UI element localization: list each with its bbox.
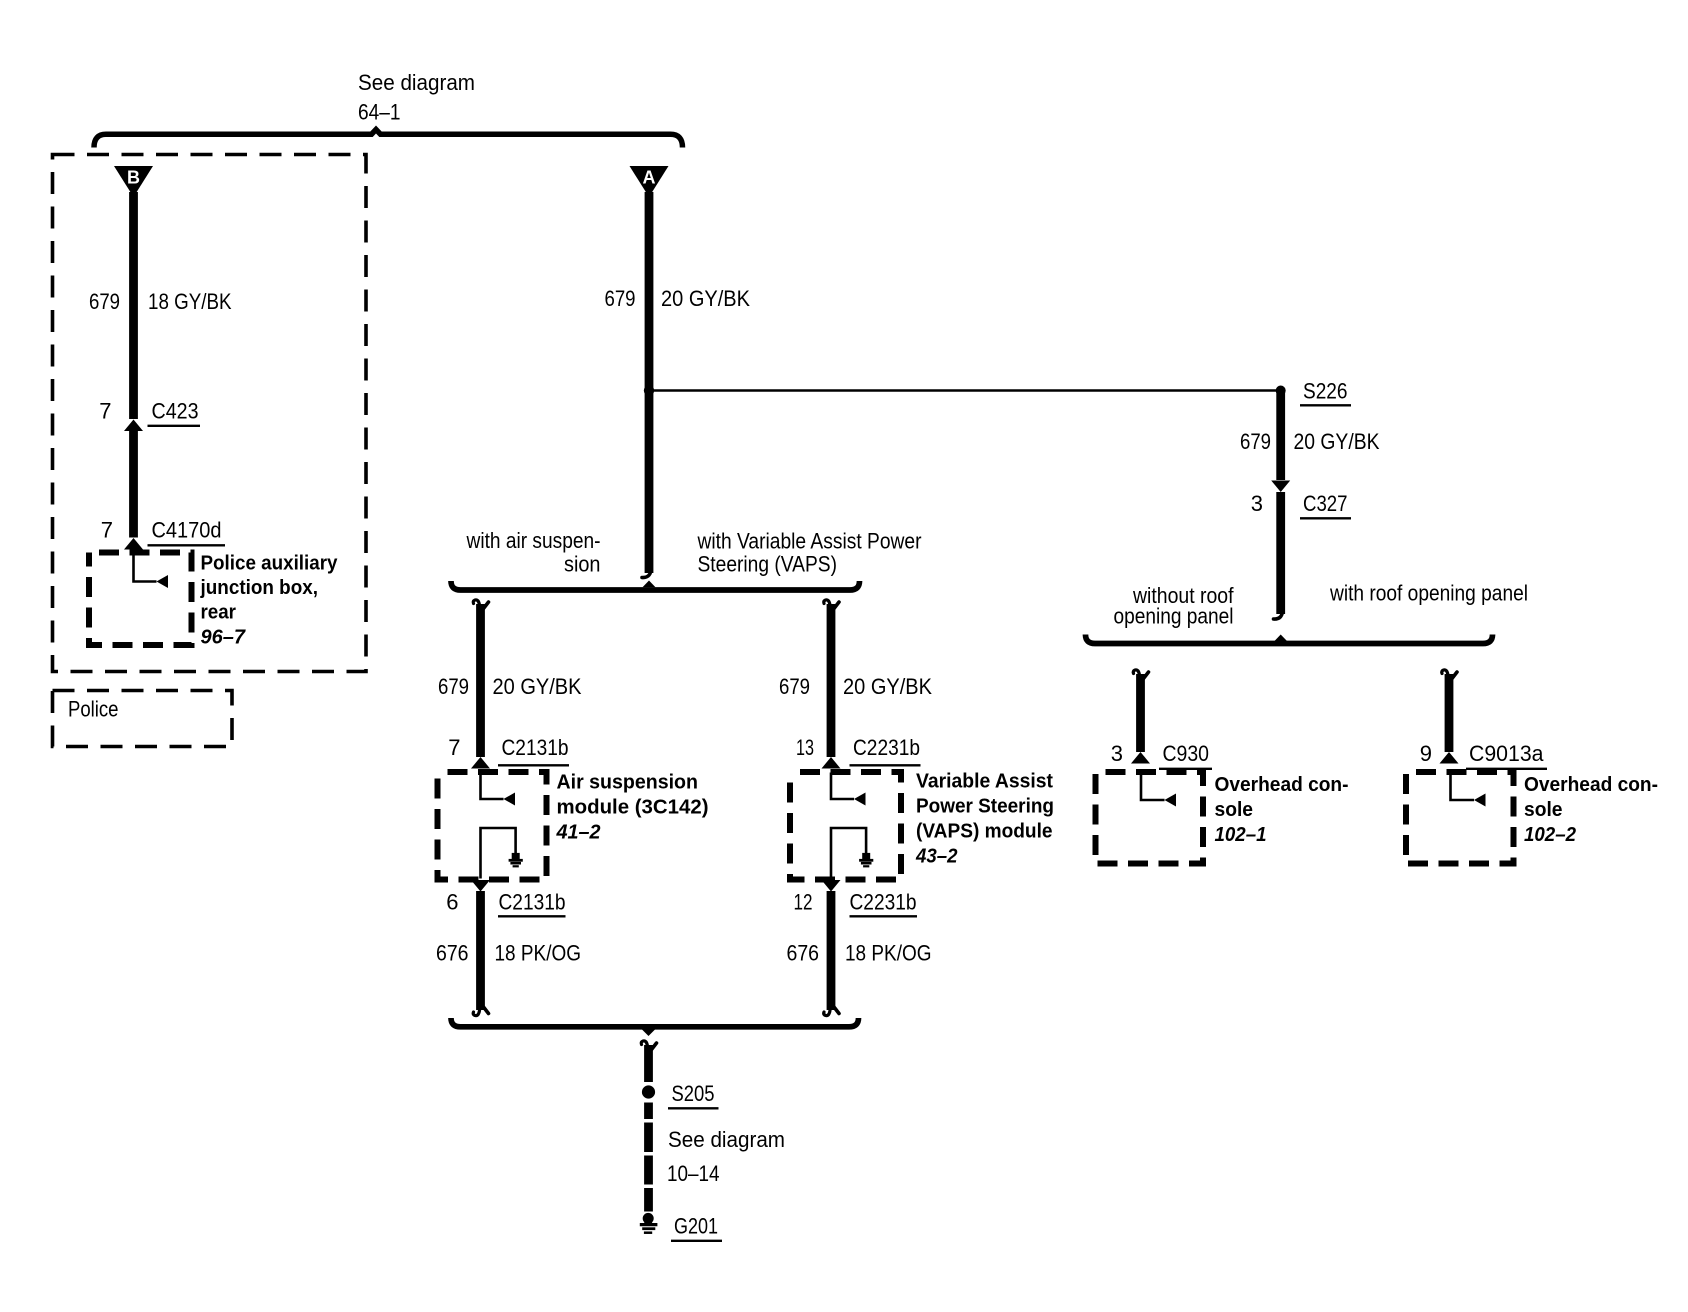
svg-text:C4170d: C4170d bbox=[152, 518, 222, 543]
VAPS module internal ground circuit bbox=[831, 828, 866, 879]
svg-text:See diagram: See diagram bbox=[358, 70, 475, 95]
wire 679 20 GY/BK (from A) bbox=[645, 192, 654, 573]
wire 679 20 GY/BK (S226 to C327) bbox=[1276, 391, 1285, 481]
svg-text:Air suspension: Air suspension bbox=[557, 771, 699, 794]
svg-text:sole: sole bbox=[1215, 798, 1254, 821]
svg-text:679: 679 bbox=[438, 674, 469, 699]
svg-text:module (3C142): module (3C142) bbox=[557, 796, 709, 819]
VAPS branch wire 679 20 GY/BK bbox=[824, 600, 830, 605]
svg-text:with roof opening panel: with roof opening panel bbox=[1329, 581, 1528, 606]
svg-text:3: 3 bbox=[1251, 491, 1263, 516]
off-page connector B bbox=[114, 166, 153, 197]
VAPS module box (dashed) bbox=[790, 772, 901, 880]
wire 676 18 PK/OG (VAPS module) bbox=[827, 891, 836, 1010]
svg-text:679: 679 bbox=[779, 674, 810, 699]
svg-text:sole: sole bbox=[1524, 798, 1563, 821]
svg-text:See diagram: See diagram bbox=[668, 1127, 785, 1152]
svg-text:with Variable Assist Power: with Variable Assist Power bbox=[697, 529, 922, 554]
console internal circuit (left) bbox=[1141, 773, 1165, 801]
svg-text:41–2: 41–2 bbox=[556, 821, 602, 844]
wire to splice S205 bbox=[641, 1041, 647, 1046]
Police option dashed harness box bbox=[53, 155, 367, 672]
svg-text:Police: Police bbox=[68, 697, 119, 722]
svg-text:C930: C930 bbox=[1163, 741, 1210, 766]
svg-text:12: 12 bbox=[794, 890, 813, 915]
ground bus to S205 bbox=[451, 1018, 859, 1027]
Overhead console box (left, dashed) bbox=[1096, 772, 1204, 864]
wire 679 (C423 to C4170d) bbox=[129, 431, 138, 538]
svg-text:13: 13 bbox=[796, 735, 814, 760]
svg-text:676: 676 bbox=[436, 941, 469, 966]
svg-text:(VAPS) module: (VAPS) module bbox=[916, 820, 1053, 843]
option split bus (roof opening panel) bbox=[1086, 635, 1493, 644]
svg-text:18 PK/OG: 18 PK/OG bbox=[495, 941, 582, 966]
svg-text:Police auxiliary: Police auxiliary bbox=[201, 552, 339, 575]
wire 679 18 GY/BK (B to C423) bbox=[129, 192, 138, 419]
svg-text:679: 679 bbox=[1240, 429, 1271, 454]
connector C9013a arrow bbox=[1440, 752, 1459, 764]
module internal circuit (pin 7) bbox=[481, 773, 504, 800]
svg-text:C9013a: C9013a bbox=[1469, 741, 1544, 766]
svg-text:20 GY/BK: 20 GY/BK bbox=[843, 674, 932, 699]
svg-text:102–1: 102–1 bbox=[1215, 823, 1267, 846]
svg-text:S205: S205 bbox=[672, 1081, 715, 1106]
svg-text:7: 7 bbox=[99, 399, 111, 424]
wire 676 18 PK/OG (air susp module) bbox=[476, 891, 485, 1010]
svg-text:10–14: 10–14 bbox=[667, 1161, 720, 1186]
splice junction dot on wire A bbox=[644, 385, 654, 395]
svg-text:Power Steering: Power Steering bbox=[916, 795, 1054, 818]
svg-text:3: 3 bbox=[1111, 741, 1123, 766]
svg-text:C2131b: C2131b bbox=[502, 735, 569, 760]
svg-text:18 GY/BK: 18 GY/BK bbox=[148, 289, 232, 314]
Overhead console box (right, dashed) bbox=[1406, 772, 1514, 864]
connector C2131b arrow (bottom) bbox=[471, 880, 490, 892]
option split bus (air suspension / VAPS) bbox=[451, 581, 860, 590]
connector C2231b arrow (top) bbox=[822, 757, 841, 769]
connector C930 arrow bbox=[1131, 752, 1150, 764]
svg-text:B: B bbox=[127, 168, 140, 188]
svg-text:opening panel: opening panel bbox=[1114, 604, 1234, 629]
Air suspension module box (dashed) bbox=[438, 772, 547, 880]
VAPS module internal circuit (pin 13) bbox=[831, 773, 854, 800]
wire to splice S226 bbox=[653, 389, 1277, 392]
svg-text:20 GY/BK: 20 GY/BK bbox=[1294, 429, 1380, 454]
svg-text:A: A bbox=[643, 168, 656, 188]
connector C2231b arrow (bottom) bbox=[822, 880, 841, 892]
air suspension branch wire 679 20 GY/BK bbox=[473, 600, 479, 605]
svg-text:sion: sion bbox=[564, 552, 601, 577]
svg-text:C2231b: C2231b bbox=[853, 735, 920, 760]
splice S226 dot bbox=[1276, 386, 1286, 396]
svg-text:C2231b: C2231b bbox=[850, 890, 917, 915]
svg-text:7: 7 bbox=[448, 735, 460, 760]
off-page connector A bbox=[630, 166, 669, 197]
svg-text:C423: C423 bbox=[152, 399, 199, 424]
svg-text:C2131b: C2131b bbox=[499, 890, 566, 915]
svg-text:S226: S226 bbox=[1303, 379, 1348, 404]
svg-text:679: 679 bbox=[605, 286, 636, 311]
branch wire to C930 bbox=[1133, 670, 1139, 675]
dashed wire S205 to G201 bbox=[644, 1103, 653, 1120]
module internal ground circuit bbox=[481, 828, 516, 879]
svg-text:7: 7 bbox=[101, 518, 113, 543]
splice S205 bbox=[642, 1085, 655, 1098]
svg-text:18 PK/OG: 18 PK/OG bbox=[845, 941, 932, 966]
svg-text:Overhead con-: Overhead con- bbox=[1215, 773, 1349, 796]
svg-text:96–7: 96–7 bbox=[201, 626, 247, 649]
svg-text:rear: rear bbox=[201, 601, 237, 624]
connector C327 arrow (down) bbox=[1271, 481, 1290, 493]
Police option label box bbox=[53, 691, 233, 747]
svg-text:junction box,: junction box, bbox=[200, 576, 318, 599]
svg-text:43–2: 43–2 bbox=[915, 845, 958, 868]
connector C4170d arrow bbox=[124, 538, 143, 550]
svg-text:20 GY/BK: 20 GY/BK bbox=[661, 286, 750, 311]
svg-text:G201: G201 bbox=[674, 1214, 718, 1239]
wire below C327 bbox=[1276, 492, 1285, 614]
svg-text:102–2: 102–2 bbox=[1524, 823, 1577, 846]
svg-text:64–1: 64–1 bbox=[358, 100, 401, 125]
connector C423 arrow bbox=[124, 420, 143, 432]
svg-text:6: 6 bbox=[446, 890, 458, 915]
svg-text:Overhead con-: Overhead con- bbox=[1524, 773, 1658, 796]
svg-text:Variable Assist: Variable Assist bbox=[916, 770, 1053, 793]
console internal circuit (right) bbox=[1451, 773, 1475, 801]
svg-text:C327: C327 bbox=[1303, 491, 1348, 516]
ground G201 symbol bbox=[643, 1213, 654, 1224]
svg-text:676: 676 bbox=[787, 941, 820, 966]
bracket / wire to diagram 64-1 bbox=[94, 130, 683, 148]
connector C2131b arrow (top) bbox=[471, 757, 490, 769]
Police auxiliary junction box (dashed) bbox=[89, 553, 192, 646]
svg-text:with air suspen-: with air suspen- bbox=[466, 528, 601, 553]
svg-text:Steering (VAPS): Steering (VAPS) bbox=[698, 552, 838, 577]
junction box internal circuit bbox=[134, 553, 157, 582]
svg-text:679: 679 bbox=[89, 289, 120, 314]
branch wire to C9013a bbox=[1442, 670, 1448, 675]
svg-text:9: 9 bbox=[1420, 741, 1432, 766]
svg-text:20 GY/BK: 20 GY/BK bbox=[493, 674, 582, 699]
